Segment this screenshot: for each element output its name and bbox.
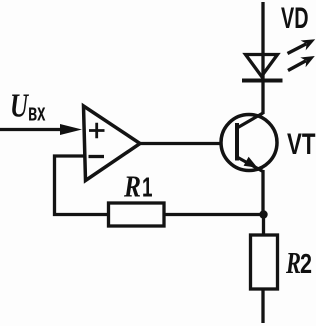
op-amp U1 triangle (84, 106, 141, 181)
input wire Uвх (0, 128, 62, 131)
LED light arrow 1 (288, 44, 307, 54)
resistor R1 (109, 203, 165, 226)
svg-text:U: U (10, 88, 30, 125)
node junction dot (259, 210, 267, 218)
resistor R2 (251, 235, 278, 289)
wire emitter down to node (261, 170, 264, 215)
op-amp plus sign (89, 123, 105, 139)
transistor collector line (237, 113, 263, 128)
svg-text:VT: VT (287, 128, 316, 161)
input arrowhead (60, 124, 82, 135)
svg-text:R: R (285, 245, 301, 280)
svg-text:1: 1 (142, 172, 153, 203)
wire R1 to emitter node (164, 213, 264, 216)
LED cathode bar (242, 79, 283, 83)
wire R2 to bottom (261, 289, 264, 323)
LED light arrow 2 (288, 61, 306, 71)
emitter arrowhead (244, 157, 258, 168)
transistor emitter line (237, 157, 263, 172)
wire op-amp output to base (140, 142, 222, 145)
transistor base bar (235, 123, 239, 161)
feedback wire from inverting input to R1 (55, 156, 109, 215)
top supply wire (261, 2, 264, 80)
transistor VT circle (221, 115, 277, 171)
svg-text:VD: VD (281, 2, 309, 35)
LED VD triangle (246, 55, 278, 77)
wire collector up to LED (261, 80, 264, 114)
svg-text:R: R (123, 169, 141, 204)
wire node to R2 (262, 215, 265, 236)
svg-text:вх: вх (28, 100, 46, 127)
svg-text:2: 2 (300, 248, 312, 279)
op-amp minus sign (89, 155, 105, 158)
